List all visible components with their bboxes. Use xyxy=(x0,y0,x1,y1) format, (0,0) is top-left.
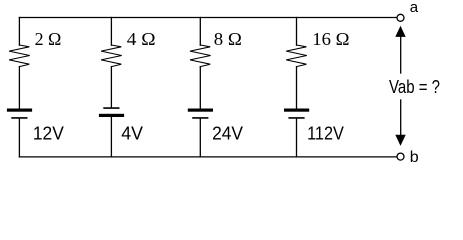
battery V3 24V plate short xyxy=(193,117,208,119)
svg-text:112V: 112V xyxy=(307,124,344,144)
battery V4 112V plate short xyxy=(289,117,304,119)
svg-text:24V: 24V xyxy=(212,124,243,144)
wire branch4 top xyxy=(296,18,298,46)
svg-text:4 Ω: 4 Ω xyxy=(127,29,156,49)
wire bottom bus xyxy=(19,156,396,158)
wire branch2 top xyxy=(110,18,112,46)
wire branch3 bottom xyxy=(199,119,201,157)
resistor R1 2ohm zigzag xyxy=(9,45,30,67)
arrow down to b xyxy=(395,135,405,146)
battery V1 12V plate short xyxy=(12,117,27,119)
battery V4 112V plate long xyxy=(284,109,309,112)
svg-text:8 Ω: 8 Ω xyxy=(214,29,242,49)
wire branch2 mid xyxy=(110,67,112,108)
svg-text:12V: 12V xyxy=(33,124,64,144)
wire branch3 top xyxy=(199,18,201,46)
svg-text:a: a xyxy=(410,0,419,16)
battery V1 12V plate long xyxy=(7,109,32,112)
wire branch3 mid xyxy=(199,67,201,109)
terminal a xyxy=(397,14,404,21)
wire branch4 bottom xyxy=(296,119,298,157)
wire arrow upper segment xyxy=(400,37,402,74)
svg-text:Vab = ?: Vab = ? xyxy=(389,77,440,97)
terminal b xyxy=(397,153,404,160)
wire branch4 mid xyxy=(296,67,298,109)
wire top bus xyxy=(19,17,396,19)
wire branch1 mid xyxy=(18,67,20,109)
svg-text:b: b xyxy=(410,149,419,166)
resistor R2 4ohm zigzag xyxy=(101,45,122,67)
wire branch1 bottom xyxy=(18,119,20,157)
resistor R3 8ohm zigzag xyxy=(190,45,211,67)
battery V2 4V plate short xyxy=(104,107,119,109)
resistor R4 16ohm zigzag xyxy=(286,45,307,67)
battery V2 4V plate long xyxy=(99,114,124,117)
wire branch2 bottom xyxy=(110,117,112,157)
svg-text:2 Ω: 2 Ω xyxy=(35,29,62,49)
arrow up to a xyxy=(395,26,405,37)
wire branch1 top xyxy=(18,18,20,46)
battery V3 24V plate long xyxy=(188,109,213,112)
svg-text:16 Ω: 16 Ω xyxy=(312,29,349,49)
svg-text:4V: 4V xyxy=(121,124,143,144)
wire arrow lower segment xyxy=(400,100,402,135)
